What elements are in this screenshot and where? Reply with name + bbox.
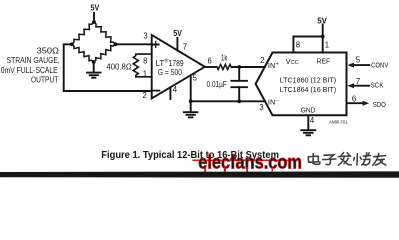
svg-text:4: 4 xyxy=(310,116,315,125)
pin 4 stub xyxy=(169,87,171,99)
svg-text:GND: GND xyxy=(301,106,316,115)
svg-text:7: 7 xyxy=(356,77,360,86)
op-amp plus sign xyxy=(153,44,159,46)
watermark drips xyxy=(204,168,206,176)
wire bridge left to amp inverting input xyxy=(64,44,152,91)
pin 1 label xyxy=(143,69,147,78)
bottom scan bar xyxy=(0,171,399,177)
resistor bridge leg top-left xyxy=(72,22,94,44)
svg-text:LTC1864 (16 BIT): LTC1864 (16 BIT) xyxy=(280,85,336,94)
node cap bottom xyxy=(237,99,241,103)
pin 1 label ADC xyxy=(325,40,329,49)
svg-text:1: 1 xyxy=(325,40,329,49)
chinese watermark zi xyxy=(323,155,336,165)
5V supply ADC xyxy=(317,17,327,26)
svg-text:0mV FULL-SCALE: 0mV FULL-SCALE xyxy=(1,65,58,75)
label 1k xyxy=(221,54,228,63)
wire 5V to bridge top xyxy=(93,13,95,22)
node bridge right xyxy=(114,42,118,46)
svg-text:IN: IN xyxy=(268,98,275,107)
svg-text:LT: LT xyxy=(156,59,165,68)
label IN- xyxy=(268,98,279,107)
svg-text:REF: REF xyxy=(317,57,331,66)
svg-text:STRAIN GAUGE,: STRAIN GAUGE, xyxy=(7,55,60,65)
pin 5 CONV wire with arrow into chip xyxy=(353,64,369,66)
svg-text:8: 8 xyxy=(143,56,147,65)
resistor bridge leg bottom-left xyxy=(72,44,94,62)
svg-text:400.8Ω: 400.8Ω xyxy=(106,63,131,72)
node 5V adc xyxy=(321,35,325,39)
pin 4 label ADC xyxy=(310,116,315,125)
label IN+ xyxy=(268,61,279,70)
svg-text:CONV: CONV xyxy=(371,60,388,69)
pin 6 SDO wire with arrow out xyxy=(347,102,364,104)
node amp ground xyxy=(189,99,193,103)
node bridge left xyxy=(70,42,74,46)
ADC U2 LTC1860/LTC1864 xyxy=(256,53,347,116)
pin 7 label xyxy=(183,43,187,52)
pin 2 label ADC xyxy=(260,56,264,65)
svg-text:+: + xyxy=(276,62,279,68)
node bridge bottom xyxy=(92,60,96,64)
svg-text:6: 6 xyxy=(352,94,356,103)
svg-text:1: 1 xyxy=(143,69,147,78)
svg-text:SDO: SDO xyxy=(373,100,386,109)
wire 1k to ADC IN+ xyxy=(232,66,265,68)
svg-text:−: − xyxy=(276,98,279,104)
svg-text:5V: 5V xyxy=(91,4,100,13)
resistor R2 1k xyxy=(216,64,231,69)
svg-text:350Ω: 350Ω xyxy=(37,46,59,56)
label 400.8 ohm xyxy=(106,63,131,72)
svg-text:5: 5 xyxy=(356,55,361,64)
svg-text:8: 8 xyxy=(296,40,300,49)
label 350 ohm strain gauge xyxy=(1,46,60,85)
wire ground rail to ADC IN- xyxy=(191,100,265,102)
svg-text:3: 3 xyxy=(259,103,263,112)
ground ADC pin 4 xyxy=(307,115,309,129)
chinese watermark you xyxy=(373,153,386,165)
op-amp U1 LT1789 xyxy=(152,35,205,99)
op-amp minus sign xyxy=(153,90,160,92)
label AN86 F01 xyxy=(329,119,349,124)
svg-text:AN86 F01: AN86 F01 xyxy=(329,119,349,124)
pin 8 label xyxy=(143,56,147,65)
svg-text:6: 6 xyxy=(208,56,212,65)
chinese watermark dian xyxy=(308,154,320,165)
resistor bridge leg bottom-right xyxy=(94,44,116,62)
pin 3 label xyxy=(143,32,147,41)
svg-text:4: 4 xyxy=(173,85,178,94)
pin 6 output wire xyxy=(205,66,217,68)
wire bridge right to amp non-inverting input xyxy=(115,43,151,45)
ground amp xyxy=(190,101,192,111)
svg-text:LTC1860 (12 BIT): LTC1860 (12 BIT) xyxy=(280,76,336,85)
svg-text:G = 500: G = 500 xyxy=(158,68,183,77)
pin 8 label ADC xyxy=(296,40,300,49)
wire 5V to pin 7 xyxy=(176,38,178,51)
label REF xyxy=(317,57,331,66)
resistor bridge leg top-right xyxy=(94,22,115,44)
node bridge top xyxy=(92,20,96,24)
pin 6 label xyxy=(208,56,212,65)
5V supply bridge xyxy=(91,4,100,13)
ground bridge xyxy=(93,62,95,72)
pin 5 stub xyxy=(190,75,192,101)
resistor R gain 400.8 ohm with pins 8,1 xyxy=(133,54,151,77)
svg-text:SCK: SCK xyxy=(371,81,384,90)
capacitor C1 0.01uF xyxy=(238,67,240,81)
pin 3 label ADC xyxy=(259,103,263,112)
wire 5V branch to VCC pin 8 xyxy=(293,37,322,53)
watermark strike line xyxy=(192,159,297,161)
label LTC1860 xyxy=(280,76,336,85)
label LT1789 G=500 xyxy=(156,58,185,78)
pin 4 label xyxy=(173,85,178,94)
svg-text:2: 2 xyxy=(143,91,147,100)
label GND xyxy=(301,106,316,115)
svg-text:OUTPUT: OUTPUT xyxy=(31,75,58,85)
svg-text:1k: 1k xyxy=(221,54,228,63)
svg-text:0.01µF: 0.01µF xyxy=(207,80,227,89)
svg-text:2: 2 xyxy=(260,56,264,65)
pin 5 label xyxy=(193,73,198,82)
wire 5V to REF pin 1 xyxy=(322,25,324,53)
label LTC1864 xyxy=(280,85,336,94)
pin 7 SCK wire with arrow into chip xyxy=(353,85,369,87)
svg-text:CC: CC xyxy=(291,60,299,66)
svg-text:3: 3 xyxy=(143,32,147,41)
pin 2 label xyxy=(143,91,147,100)
svg-text:IN: IN xyxy=(268,61,275,70)
chinese watermark shao xyxy=(354,153,371,165)
label 0.01uF xyxy=(207,80,227,89)
label VCC xyxy=(286,57,299,66)
5V supply amp xyxy=(173,29,182,38)
svg-text:elecfans.com: elecfans.com xyxy=(198,152,302,173)
svg-text:5: 5 xyxy=(193,73,198,82)
chinese watermark fa xyxy=(338,153,351,166)
node filter top xyxy=(237,65,241,69)
svg-text:7: 7 xyxy=(183,43,187,52)
svg-text:1789: 1789 xyxy=(169,59,184,68)
